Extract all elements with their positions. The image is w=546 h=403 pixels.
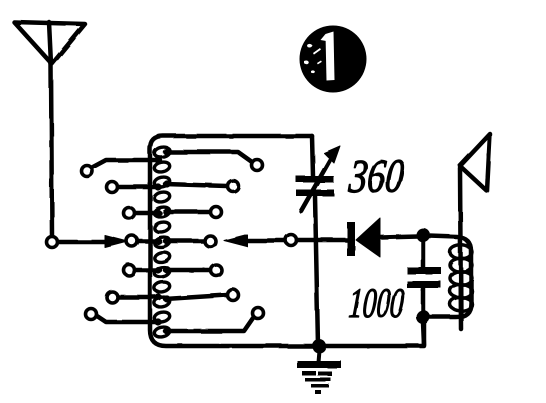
wire tap L2a	[118, 185, 160, 190]
wire tap R5	[165, 268, 210, 273]
wire tap L6a	[118, 295, 160, 300]
junction dot tap L4a	[154, 237, 161, 244]
diode D1 cathode bar	[347, 222, 355, 256]
junction dot tap L6a	[154, 293, 161, 300]
node tap contact right 5	[211, 265, 222, 276]
wire tap L1a	[93, 160, 160, 167]
variable capacitor C1 plates	[296, 176, 334, 183]
junction dot tap R7	[163, 327, 170, 334]
node tap contact right 4 (selected)	[205, 236, 216, 247]
node tap contact left 3	[124, 208, 135, 219]
junction node top of C2	[416, 228, 430, 242]
wire tap R4	[165, 239, 204, 244]
junction dot tap L2a	[154, 183, 161, 190]
variable capacitor C1 adjustment arrow	[301, 160, 330, 211]
wire tap R2	[165, 184, 227, 186]
wiper arrow right (points left)	[224, 235, 247, 247]
svg-text:1000: 1000	[347, 279, 406, 326]
wire antenna to wiper	[59, 240, 110, 245]
svg-text:360: 360	[346, 150, 406, 203]
earphone BF1 winding	[450, 245, 472, 311]
junction dot tap R2	[163, 180, 170, 187]
node tap contact right 1	[252, 160, 263, 171]
junction dot tap R5	[163, 266, 170, 273]
wire C2 to bottom junction	[421, 288, 426, 315]
wire detector terminal to diode	[297, 238, 348, 243]
node tap contact left 6	[107, 292, 118, 303]
wire tap L4a	[139, 239, 160, 244]
wire diode to junction	[380, 236, 418, 237]
junction dot tap L1a	[154, 156, 161, 163]
node tap contact right 7	[253, 308, 264, 319]
wire bottom junction down to rail	[423, 322, 424, 345]
ground junction node	[312, 339, 326, 353]
node tap contact right 2	[228, 181, 239, 192]
node tap contact right 3	[211, 207, 222, 218]
earphone BF1 diaphragm triangle	[460, 134, 490, 191]
wire tap R7	[165, 318, 253, 331]
wire tap R6	[165, 295, 227, 299]
wire tap L3a	[135, 211, 160, 216]
junction dot tap R1	[163, 148, 170, 155]
wire tap R1	[165, 152, 252, 162]
coil frame wire (top rail, left side, bottom rail)	[150, 136, 424, 346]
badge figure number 1	[300, 26, 367, 93]
capacitor C2 plates	[407, 267, 441, 274]
wire wiper right to detector terminal	[243, 238, 285, 243]
wire tap L5a	[135, 268, 160, 273]
junction dot tap R3	[163, 208, 170, 215]
node tap contact left 1	[82, 166, 93, 177]
junction dot tap R4	[163, 237, 170, 244]
node tap contact left 2	[107, 182, 118, 193]
coil L1 winding loops	[153, 146, 170, 339]
junction dot tap L5a	[154, 266, 161, 273]
wire tap R3	[165, 210, 210, 215]
wire junction to C2	[421, 239, 426, 268]
node tap contact left 7	[86, 309, 97, 320]
wire antenna lead	[51, 64, 52, 237]
node tap contact right 6	[228, 290, 239, 301]
junction dot tap L7a	[154, 318, 161, 325]
junction dot tap R6	[163, 295, 170, 302]
ground symbol	[297, 350, 341, 394]
node tap contact left 4 (selected)	[127, 236, 138, 247]
wire tap L7a	[97, 316, 160, 322]
earphone BF1 core wire	[460, 168, 461, 329]
node antenna terminal	[47, 237, 58, 248]
antenna	[14, 22, 85, 64]
wiper arrow left (points right)	[105, 236, 128, 248]
node detector terminal	[286, 235, 297, 246]
junction node bottom of C2	[416, 310, 430, 324]
node tap contact left 5	[124, 265, 135, 276]
junction dot tap L3a	[154, 209, 161, 216]
variable capacitor C1 vertical wire bottom	[315, 196, 318, 346]
variable capacitor C1 vertical wire top	[312, 136, 313, 176]
diode D1 triangle	[356, 218, 380, 257]
earphone BF1 connection loop	[429, 236, 471, 317]
